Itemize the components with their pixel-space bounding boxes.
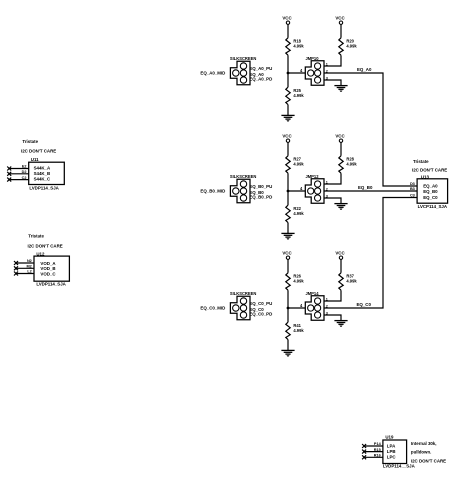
svg-text:4.99k: 4.99k xyxy=(293,328,304,333)
svg-text:I2C DON'T CARE: I2C DON'T CARE xyxy=(28,243,63,248)
no-connect X xyxy=(7,167,11,171)
svg-text:LVDP114__SJA: LVDP114__SJA xyxy=(383,464,416,469)
svg-text:VCC: VCC xyxy=(335,16,345,21)
power VCC (row1 right) xyxy=(335,16,345,25)
no-connect X xyxy=(14,266,18,270)
power VCC (row3 right) xyxy=(335,251,345,260)
wire xyxy=(287,73,289,87)
svg-text:4.99k: 4.99k xyxy=(293,211,304,216)
ground (R25 return) xyxy=(281,115,294,121)
no-connect X xyxy=(362,444,366,448)
svg-text:EQ_A0: EQ_A0 xyxy=(423,184,438,189)
svg-text:pulldown.: pulldown. xyxy=(411,449,432,454)
svg-text:N2: N2 xyxy=(27,259,32,263)
svg-text:C3: C3 xyxy=(410,194,415,198)
jumper JMP12 xyxy=(305,174,324,203)
power VCC (row1 left) xyxy=(282,16,292,25)
wire net EQ_B0 xyxy=(324,190,417,192)
svg-text:B3: B3 xyxy=(410,187,415,191)
svg-text:Tristate: Tristate xyxy=(28,234,44,239)
resistor R18 xyxy=(286,38,305,55)
jumper JMP14 xyxy=(305,291,324,320)
svg-text:EQ_C0: EQ_C0 xyxy=(357,302,372,307)
svg-text:VCC: VCC xyxy=(282,16,292,21)
svg-text:I2C DON'T CARE: I2C DON'T CARE xyxy=(21,148,56,153)
no-connect X xyxy=(362,450,366,454)
resistor R27 xyxy=(286,156,305,173)
svg-text:EQ_B0_MID: EQ_B0_MID xyxy=(200,189,225,194)
connector SILKSCREEN (EQ_A0 select) xyxy=(230,56,256,85)
svg-text:Tristate: Tristate xyxy=(413,159,429,164)
svg-text:EQ_B0: EQ_B0 xyxy=(358,185,373,190)
ground (JMP12 pin3) xyxy=(334,204,347,210)
node EQ_C0_MID junction xyxy=(287,307,290,310)
svg-text:C2: C2 xyxy=(22,176,27,180)
wire xyxy=(340,259,342,272)
wire xyxy=(288,307,305,309)
connector SILKSCREEN (EQ_C0 select) xyxy=(230,291,256,320)
IC U19 xyxy=(383,434,416,468)
no-connect X xyxy=(362,455,366,459)
no-connect X xyxy=(7,178,11,182)
svg-text:VOD_A: VOD_A xyxy=(40,261,56,266)
ground (JMP14 pin3) xyxy=(334,321,347,327)
wire xyxy=(324,315,341,321)
pin E2 wire (U11 S44K_A) xyxy=(9,168,29,170)
pin R15 wire (U19 LPB) xyxy=(364,451,383,453)
wire xyxy=(340,24,342,37)
resistor R41 xyxy=(286,322,305,339)
wire net EQ_C0 xyxy=(324,198,417,309)
svg-text:EQ_A0_MID: EQ_A0_MID xyxy=(200,71,225,76)
wire xyxy=(287,223,289,234)
jumper JMP10 xyxy=(305,56,324,85)
wire xyxy=(287,191,289,205)
svg-text:LVCP114_SJA: LVCP114_SJA xyxy=(418,204,448,209)
svg-text:EQ_C0_PD: EQ_C0_PD xyxy=(249,312,272,317)
op-amp? IC U11 xyxy=(29,157,65,190)
wire xyxy=(324,198,341,204)
connector SILKSCREEN (EQ_B0 select) xyxy=(230,174,256,203)
svg-text:EQ_A0_PU: EQ_A0_PU xyxy=(249,66,272,71)
svg-text:VCC: VCC xyxy=(335,134,345,139)
svg-text:EQ_B0_PU: EQ_B0_PU xyxy=(249,184,272,189)
svg-text:U19: U19 xyxy=(385,434,394,439)
svg-text:I2C DON'T CARE: I2C DON'T CARE xyxy=(412,167,447,172)
resistor R28 xyxy=(339,156,358,173)
pin P14 wire (U19 LPA) xyxy=(364,445,383,447)
wire xyxy=(288,72,305,74)
svg-text:LVDP114_SJA: LVDP114_SJA xyxy=(36,282,66,287)
svg-text:R16: R16 xyxy=(374,454,381,458)
ground (R22 return) xyxy=(281,233,294,239)
svg-text:LPA: LPA xyxy=(387,444,396,449)
node EQ_B0_MID junction xyxy=(287,190,290,193)
svg-text:EQ_C0_MID: EQ_C0_MID xyxy=(200,306,225,311)
wire xyxy=(324,173,341,184)
svg-text:S44K_A: S44K_A xyxy=(34,165,51,170)
svg-text:EQ_A0: EQ_A0 xyxy=(357,67,372,72)
svg-text:D3: D3 xyxy=(410,182,415,186)
ground (R41 return) xyxy=(281,350,294,356)
svg-text:SILKSCREEN: SILKSCREEN xyxy=(230,174,256,179)
node EQ_A0_MID junction xyxy=(287,72,290,75)
svg-text:4.99k: 4.99k xyxy=(293,43,304,48)
svg-text:VCC: VCC xyxy=(282,251,292,256)
wire xyxy=(287,259,289,272)
svg-text:VCC: VCC xyxy=(335,251,345,256)
svg-text:EQ_B0_PD: EQ_B0_PD xyxy=(249,195,272,200)
resistor R37 xyxy=(339,273,358,290)
svg-text:4.99k: 4.99k xyxy=(346,278,357,283)
svg-text:EQ_C0: EQ_C0 xyxy=(423,195,438,200)
wire xyxy=(324,55,341,66)
wire xyxy=(287,105,289,116)
pin C2 wire (U11 S44K_C) xyxy=(9,179,29,181)
ground (JMP10 pin3) xyxy=(334,86,347,92)
svg-text:S44K_C: S44K_C xyxy=(34,177,51,182)
resistor R25 xyxy=(286,87,305,104)
svg-text:SILKSCREEN: SILKSCREEN xyxy=(230,56,256,61)
IC U12 xyxy=(34,251,69,286)
svg-text:LVDP114_SJA: LVDP114_SJA xyxy=(29,185,59,190)
wire xyxy=(287,142,289,155)
svg-text:M2: M2 xyxy=(27,265,32,269)
svg-text:I2C DON'T CARE: I2C DON'T CARE xyxy=(411,459,446,464)
svg-text:EQ_B0: EQ_B0 xyxy=(423,189,438,194)
svg-text:L2: L2 xyxy=(27,270,31,274)
wire xyxy=(340,142,342,155)
resistor R26 xyxy=(286,273,305,290)
wire xyxy=(324,290,341,301)
pin M2 wire (U12 VOD_B) xyxy=(16,267,34,269)
wire xyxy=(324,80,341,86)
wire xyxy=(287,290,289,308)
svg-text:LPB: LPB xyxy=(387,449,396,454)
svg-text:4.99k: 4.99k xyxy=(293,161,304,166)
resistor R20 xyxy=(339,38,358,55)
svg-text:VCC: VCC xyxy=(282,134,292,139)
wire xyxy=(287,55,289,73)
svg-text:S44K_B: S44K_B xyxy=(34,171,51,176)
no-connect X xyxy=(7,172,11,176)
pin D2 wire (U11 S44K_B) xyxy=(9,173,29,175)
svg-text:U11: U11 xyxy=(31,157,39,162)
power VCC (row2 left) xyxy=(282,134,292,143)
svg-text:LPC: LPC xyxy=(387,455,397,460)
svg-text:EQ_A0_PD: EQ_A0_PD xyxy=(249,77,272,82)
wire xyxy=(287,308,289,322)
wire xyxy=(287,173,289,191)
wire xyxy=(287,340,289,351)
pin N2 wire (U12 VOD_A) xyxy=(16,262,34,264)
svg-text:EQ_C0_PU: EQ_C0_PU xyxy=(249,301,272,306)
svg-text:4.99k: 4.99k xyxy=(346,43,357,48)
note Internal 30k pulldown (U19) xyxy=(411,441,446,464)
svg-text:R15: R15 xyxy=(374,448,381,452)
no-connect X xyxy=(14,272,18,276)
no-connect X xyxy=(14,261,18,265)
svg-text:SILKSCREEN: SILKSCREEN xyxy=(230,291,256,296)
svg-text:VOD_C: VOD_C xyxy=(40,271,56,276)
IC U13 xyxy=(417,174,448,209)
power VCC (row2 right) xyxy=(335,134,345,143)
wire xyxy=(287,24,289,37)
svg-text:E2: E2 xyxy=(22,165,27,169)
power VCC (row3 left) xyxy=(282,251,292,260)
wire xyxy=(288,190,305,192)
resistor R22 xyxy=(286,205,305,222)
svg-text:Internal 30k,: Internal 30k, xyxy=(411,441,437,446)
wire net EQ_A0 xyxy=(324,73,417,186)
svg-text:4.99k: 4.99k xyxy=(293,93,304,98)
svg-text:P14: P14 xyxy=(374,442,382,446)
svg-text:4.99k: 4.99k xyxy=(293,278,304,283)
pin L2 wire (U12 VOD_C) xyxy=(16,273,34,275)
svg-text:4.99k: 4.99k xyxy=(346,161,357,166)
svg-text:Tristate: Tristate xyxy=(22,139,38,144)
svg-text:D2: D2 xyxy=(22,170,27,174)
pin R16 wire (U19 LPC) xyxy=(364,456,383,458)
